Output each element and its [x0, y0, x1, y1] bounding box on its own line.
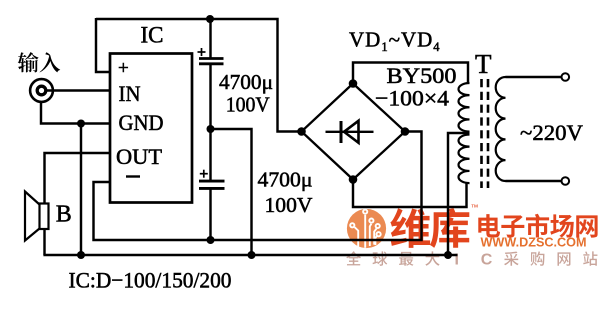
svg-text:~220V: ~220V — [520, 120, 583, 145]
svg-text:4700μ: 4700μ — [258, 168, 313, 192]
svg-text:C: C — [481, 252, 493, 269]
svg-text:100V: 100V — [265, 193, 313, 217]
svg-text:−100×4: −100×4 — [375, 86, 449, 111]
svg-text:VD1~VD4: VD1~VD4 — [349, 28, 441, 55]
svg-text:IC:D−100/150/200: IC:D−100/150/200 — [69, 268, 232, 293]
svg-text:BY500: BY500 — [387, 63, 457, 88]
svg-text:IC: IC — [141, 23, 164, 48]
svg-text:™: ™ — [471, 203, 479, 212]
svg-text:4700μ: 4700μ — [219, 70, 273, 94]
svg-text:100V: 100V — [226, 93, 270, 117]
svg-text:OUT: OUT — [116, 144, 163, 169]
svg-text:WWW.DZSC.COM: WWW.DZSC.COM — [481, 235, 587, 250]
svg-text:GND: GND — [119, 110, 164, 135]
svg-text:IN: IN — [119, 81, 141, 106]
svg-text:B: B — [56, 202, 72, 228]
svg-text:+: + — [118, 58, 129, 79]
svg-text:T: T — [475, 49, 492, 79]
